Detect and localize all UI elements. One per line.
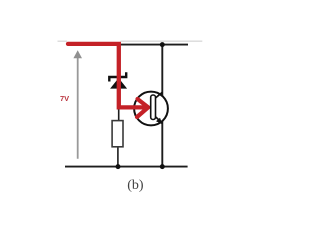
transistor Q1 body: [134, 92, 168, 126]
junction bottom right: [160, 164, 165, 169]
wire bottom rail: [65, 166, 188, 168]
faint top rule: [58, 40, 68, 42]
junction bottom left: [116, 164, 121, 169]
resistor: [112, 121, 123, 147]
voltage arrow 7V annotation: [73, 50, 82, 159]
transistor Q1 base bar: [151, 95, 156, 120]
zener diode: [109, 72, 127, 88]
wire top rail: [118, 44, 188, 46]
faint top rule right part: [121, 40, 203, 42]
red current arrowhead into base: [137, 99, 148, 117]
wire base branch to resistor: [118, 45, 120, 122]
junction top rail: [160, 42, 165, 47]
wire resistor to bottom rail: [117, 147, 119, 167]
svg-text:(b): (b): [127, 178, 144, 193]
wire red highlighted path: [68, 44, 144, 108]
svg-text:7V: 7V: [60, 94, 69, 103]
wire collector-emitter vertical: [161, 45, 163, 167]
